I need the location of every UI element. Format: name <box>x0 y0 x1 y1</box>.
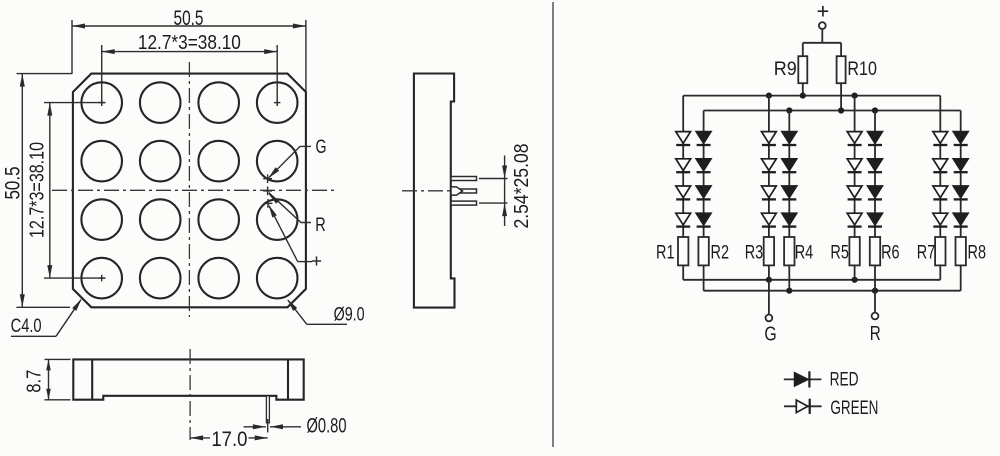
svg-text:R8: R8 <box>968 241 987 263</box>
svg-text:R9: R9 <box>774 58 797 80</box>
svg-text:G: G <box>764 324 776 346</box>
svg-text:R: R <box>315 215 326 236</box>
svg-text:R6: R6 <box>881 241 900 263</box>
svg-text:2.54*25.08: 2.54*25.08 <box>511 144 533 229</box>
svg-text:50.5: 50.5 <box>174 7 204 30</box>
svg-text:R2: R2 <box>711 241 730 263</box>
svg-text:R: R <box>870 323 881 345</box>
svg-text:12.7*3=38.10: 12.7*3=38.10 <box>138 32 241 54</box>
svg-text:17.0: 17.0 <box>211 428 247 451</box>
svg-text:C4.0: C4.0 <box>11 315 42 337</box>
svg-text:GREEN: GREEN <box>830 397 878 419</box>
svg-text:12.7*3=38.10: 12.7*3=38.10 <box>27 142 49 238</box>
svg-text:R4: R4 <box>795 241 814 263</box>
svg-text:Ø0.80: Ø0.80 <box>307 415 347 438</box>
svg-text:50.5: 50.5 <box>2 167 25 200</box>
svg-text:R1: R1 <box>656 241 675 263</box>
svg-text:R3: R3 <box>745 241 764 263</box>
svg-text:RED: RED <box>830 368 859 390</box>
svg-text:G: G <box>316 137 327 158</box>
svg-text:R7: R7 <box>917 241 936 263</box>
svg-text:Ø9.0: Ø9.0 <box>334 303 365 325</box>
svg-text:8.7: 8.7 <box>23 370 45 393</box>
svg-text:R5: R5 <box>830 241 849 263</box>
svg-text:R10: R10 <box>847 58 877 80</box>
